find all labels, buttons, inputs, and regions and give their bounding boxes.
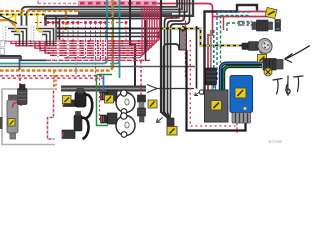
wire orange column and band bbox=[112, 0, 114, 66]
red dashed verticals over rows bbox=[58, 40, 106, 58]
wire blue dashed corner to top connector bbox=[221, 16, 251, 64]
right cluster: blue dashed wire bbox=[217, 12, 250, 80]
connector box J2 bbox=[31, 26, 55, 46]
label tag L2 yellow bbox=[258, 55, 267, 63]
crimson bundle c5 bbox=[45, 6, 147, 53]
yellow stubs over boxes bbox=[16, 27, 44, 32]
wire black thick to top connector bbox=[205, 5, 258, 95]
ignition coil cluster C bbox=[101, 90, 118, 101]
wire black L2 bbox=[27, 0, 183, 29]
wire orange drop x54 bbox=[53, 71, 55, 90]
green box outline bbox=[97, 75, 113, 126]
ignition coil cluster A bbox=[63, 89, 92, 119]
right cluster: black wire to ring terminal bbox=[196, 26, 198, 89]
spark plug cap X2 center bbox=[138, 61, 146, 122]
wire green dashed corner 2 to top connector bbox=[223, 17, 225, 31]
connector stub left edge 2 bbox=[0, 49, 5, 55]
tick marks on crimson rows bbox=[30, 41, 154, 58]
wire black vertical pair mid-left bbox=[55, 16, 57, 40]
wire yellow into box1 bbox=[15, 15, 17, 32]
ignition coil cluster B bbox=[62, 112, 89, 140]
blue short vertical at harness bbox=[103, 76, 105, 95]
wire orange dashed top bbox=[0, 11, 79, 30]
wire black vertical x130 with jog bbox=[130, 0, 135, 87]
blue module bbox=[230, 76, 253, 113]
wire red dashed vertical drops bbox=[53, 23, 78, 58]
ring terminal with hook bbox=[195, 90, 204, 96]
wire red dashed vertical x63 bbox=[55, 75, 57, 90]
wire purple bbox=[0, 58, 20, 70]
label tag L1 yellow (rotated) bbox=[265, 7, 277, 18]
wire black L3 bbox=[78, 0, 187, 14]
label tag L6 yellow cluster C bbox=[105, 95, 114, 103]
top-right inline connector J3 bbox=[252, 20, 281, 32]
label tag L4 yellow on canister bbox=[8, 119, 15, 127]
big gray box outline bbox=[2, 89, 55, 145]
O2 sensor S1 bbox=[242, 42, 259, 51]
rows ending at funnel with arrowheads bbox=[57, 33, 160, 37]
wire green of pair bbox=[224, 66, 263, 93]
red dashed inner border of box bbox=[190, 40, 237, 126]
wire light gray under boxes bbox=[0, 40, 57, 42]
right cluster: green dashed wire bbox=[213, 30, 215, 95]
crimson bundle c2 bbox=[16, 6, 155, 46]
wire crimson branch to top-right connector bbox=[213, 12, 271, 17]
wire teal vertical 1 bbox=[107, 0, 120, 64]
wire pink band with crimson dashes bbox=[78, 1, 157, 6]
label tag L3 yellow circle with X bbox=[264, 68, 272, 76]
funnel wire f1 bbox=[165, 0, 180, 118]
big black box (ECU area) bbox=[187, 50, 246, 131]
harness arrowhead bbox=[147, 85, 157, 93]
main harness bbox=[61, 86, 146, 92]
cable sleeve on top bundle bbox=[180, 30, 187, 50]
funnel wire f4 bbox=[44, 18, 159, 20]
label tag L9 yellow funnel bbox=[167, 127, 177, 136]
crimson bundle c0 bbox=[6, 6, 160, 41]
canister component M1 bbox=[7, 95, 18, 139]
label tag L5 yellow cluster A bbox=[63, 96, 72, 104]
connector stub left edge 1 bbox=[0, 41, 5, 47]
wire gray step top-left of middle bbox=[0, 55, 21, 57]
connector box J1 bbox=[3, 26, 28, 46]
round connector P1 bbox=[256, 37, 274, 56]
blue module connector bbox=[232, 113, 251, 124]
wire red dashed lower band bbox=[0, 75, 103, 77]
small ring tab on module connector bbox=[243, 107, 247, 111]
white gaps at red wire crossings bbox=[58, 40, 106, 59]
hand-drawn arrow bbox=[287, 46, 311, 59]
red dashed inner green box bbox=[99, 74, 101, 122]
gray block inside box bbox=[205, 90, 229, 122]
arrowhead on yellow-black wire bbox=[182, 26, 187, 31]
crimson bundle c1 bbox=[11, 6, 157, 43]
wire yellow-black dashed to sensor bbox=[57, 29, 242, 46]
wire orange solid left bbox=[0, 20, 17, 27]
right cluster: gray wire bbox=[210, 30, 212, 95]
wire gray middle bbox=[0, 66, 195, 68]
right cluster: red dashed vertical bbox=[164, 18, 186, 77]
funnel connector bbox=[157, 118, 175, 127]
red dashed stub below connector bbox=[236, 124, 238, 134]
wire pink dashed vertical x76 bbox=[75, 58, 77, 78]
wire red dashed with junction dots bbox=[35, 22, 131, 24]
crimson rows lower pair bbox=[50, 6, 145, 58]
wire red canister to plug cap bbox=[13, 103, 22, 108]
dark mark bottom-left edge bbox=[0, 117, 3, 129]
spark plug cap X1 bbox=[18, 85, 28, 105]
wire black diagonal left bbox=[0, 16, 17, 24]
label tag L7 yellow bbox=[148, 100, 157, 108]
svg-text:3DT090: 3DT090 bbox=[268, 139, 283, 144]
wire yellow-black dashed left bbox=[0, 14, 46, 16]
wire red middle bbox=[21, 56, 46, 60]
node dots on red dashed bbox=[47, 21, 128, 24]
wire red dashed to plug cap bbox=[19, 74, 21, 85]
wire blue of pair bbox=[221, 63, 263, 93]
ignition coil cluster D bbox=[101, 113, 118, 124]
funnel wire f0 from top edge bbox=[161, 0, 168, 118]
label tag L10 yellow on gray block bbox=[211, 101, 222, 111]
gauge G2 bbox=[116, 113, 135, 138]
funnel wire f2 bbox=[168, 0, 185, 118]
blue-green pair to T-T connector bbox=[221, 63, 263, 93]
wire pink dashed top bbox=[38, 1, 78, 4]
TOP WIRES GROUP bbox=[0, 0, 270, 118]
funnel wire f3 bbox=[170, 0, 190, 118]
wire black L4 with left corner bbox=[46, 0, 194, 38]
wire crimson from band to right, down to connector cluster bbox=[157, 4, 213, 96]
label tag L11 yellow on blue module bbox=[235, 88, 246, 98]
T-T connector P2 bbox=[259, 59, 283, 71]
wire black L1 bbox=[22, 0, 178, 29]
handwritten T&T bbox=[273, 76, 303, 96]
wire teal vertical 2 and horizontal run bbox=[0, 0, 120, 78]
wire thin after arrowhead bbox=[157, 88, 194, 90]
striped connector into gray block bbox=[206, 68, 217, 91]
wire yellow into box2 bbox=[37, 15, 39, 32]
wire black vertical x145.5 bbox=[145, 20, 147, 61]
wire red dash stub to top connector bbox=[238, 21, 252, 23]
crimson bundle c4 bbox=[40, 6, 150, 51]
crimson bundle c3 bbox=[35, 6, 152, 48]
gauge G1 bbox=[116, 90, 135, 114]
wire green dashed corner 1 to top connector bbox=[227, 23, 250, 32]
wire yellow solid left bbox=[0, 15, 16, 21]
funnel wire f5 corner from sleeve bbox=[164, 44, 180, 118]
